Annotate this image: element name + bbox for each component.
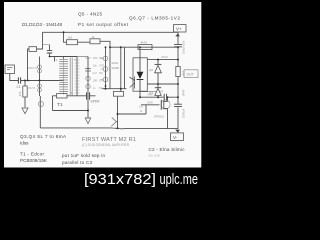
cap on V- vertical [174, 104, 182, 106]
wire P1 chain [78, 41, 111, 47]
svg-text:FIRST WATT M2 R1: FIRST WATT M2 R1 [82, 137, 136, 143]
svg-text:Q5 - 4N25: Q5 - 4N25 [78, 11, 102, 16]
svg-text:parallel to C3: parallel to C3 [62, 160, 92, 165]
svg-text:T1 - Edcor: T1 - Edcor [20, 151, 44, 156]
svg-text:25v 10uF: 25v 10uF [149, 154, 161, 158]
mosfet Q2 circle [161, 100, 170, 109]
wire jfet column [39, 57, 42, 128]
svg-text:0R47: 0R47 [148, 93, 155, 97]
zobel R circles [86, 76, 90, 80]
resistor R feedback bottom [57, 94, 68, 98]
labels near mosfet [139, 93, 165, 119]
zobel cap [85, 69, 91, 71]
junction input/bias [27, 80, 29, 82]
T1 terminal numbers [56, 58, 77, 95]
jfet symbol bottom middle [111, 118, 117, 127]
svg-text:SPKR: SPKR [91, 100, 101, 104]
svg-text:10R: 10R [93, 79, 98, 83]
wire riser x146 [145, 105, 147, 114]
svg-text:50v: 50v [99, 71, 104, 75]
cap on V+ vertical top [174, 44, 182, 46]
resistor mid under opto [114, 91, 124, 96]
junction column A lower [105, 85, 107, 87]
OUT box [184, 70, 198, 78]
junction y88 line / twin vertical [120, 88, 122, 90]
transistor lower left [38, 101, 43, 106]
wire mid column B [109, 47, 111, 88]
svg-text:PCB009/15K: PCB009/15K [20, 158, 48, 163]
transformer T1 primary winding [59, 59, 68, 91]
rotated value labels right [182, 40, 186, 118]
svg-text:Q6,Q7 - LM385-1V2: Q6,Q7 - LM385-1V2 [129, 16, 180, 21]
wire input to gate node [10, 74, 18, 81]
wire twin verticals [121, 47, 125, 92]
wire opto LED bottom lead [139, 91, 141, 97]
svg-text:4u7: 4u7 [93, 71, 98, 75]
wire gate line y104.8 [141, 104, 160, 106]
svg-text:221: 221 [139, 105, 144, 109]
svg-text:D1,D2,D3 - 1N4148: D1,D2,D3 - 1N4148 [22, 22, 62, 27]
node cap C3 column [49, 45, 51, 57]
wire gate line y114 [118, 113, 147, 115]
junction mid rail / V+ vertical [177, 46, 179, 48]
potentiometer P1 box2 [90, 39, 100, 44]
svg-text:C2 - Elna Silmic: C2 - Elna Silmic [149, 147, 186, 152]
wire mid column A [105, 47, 107, 88]
jfet Q4 [38, 84, 42, 88]
svg-text:10u: 10u [93, 64, 98, 68]
mosfet Q2 [160, 100, 162, 110]
ground (input) [22, 108, 28, 114]
opto phototransistor [130, 77, 135, 89]
resistor R1 [23, 86, 27, 97]
svg-text:Q3,Q4 SL 7 to 8mA: Q3,Q4 SL 7 to 8mA [20, 134, 67, 139]
opto LED lead [139, 58, 141, 72]
svg-text:47: 47 [160, 90, 164, 94]
junction y84 / V rail [177, 83, 179, 85]
junction C3/T1 top [49, 56, 51, 58]
wire T1 terminal 1 stub [54, 57, 56, 62]
wire winding top stub [63, 57, 65, 59]
wire bottom ground rail [40, 127, 178, 130]
svg-text:V-: V- [173, 135, 178, 140]
wire q6 top rail y60 [147, 59, 178, 61]
junction y60 / V rail [177, 59, 179, 61]
small box on left drop [29, 47, 37, 52]
junction Q6 top [157, 59, 159, 61]
transformer core [70, 58, 72, 96]
svg-text:V+: V+ [176, 27, 182, 32]
wire output node vertical [87, 57, 89, 119]
svg-text:(C) 2018 GENERAL AMPLIFIER: (C) 2018 GENERAL AMPLIFIER [82, 143, 130, 147]
svg-text:1R0: 1R0 [93, 56, 98, 60]
svg-text:0R47: 0R47 [182, 89, 186, 96]
svg-text:1W: 1W [99, 79, 103, 83]
wire T1 top line [50, 56, 78, 58]
optocoupler U1 box [133, 58, 147, 91]
junction y88 line / column A [105, 88, 107, 90]
junction mid rail / column B [109, 46, 111, 48]
wire down to input node [28, 49, 30, 81]
svg-text:4k75: 4k75 [141, 41, 148, 45]
opto LED cathode bar [137, 79, 144, 81]
svg-text:221k: 221k [112, 61, 119, 65]
wire opto to q7 [140, 91, 157, 93]
transformer secondary ticks [75, 60, 80, 93]
capacitor output [87, 92, 90, 99]
junction P1 tap on rail [63, 31, 65, 33]
wire output cap to SPKR [77, 95, 96, 97]
svg-text:3W: 3W [99, 56, 103, 60]
wire top rail V+ [43, 31, 179, 33]
V+ arrow [175, 33, 180, 36]
svg-text:IRF9610: IRF9610 [154, 115, 165, 119]
junction output/ground leg [87, 110, 89, 112]
svg-text:C1: C1 [17, 85, 21, 89]
wire T1 right vertical [76, 57, 78, 96]
svg-text:47uF: 47uF [161, 55, 168, 59]
wire T1 bottom loop [53, 95, 78, 97]
wire P1 stub [64, 32, 67, 42]
mid transistors column A [103, 56, 108, 61]
input jack J1 [5, 65, 15, 74]
junction gate node [39, 80, 41, 82]
svg-text:1k5: 1k5 [68, 36, 73, 40]
black frame background [0, 0, 204, 189]
junction mosfet source [167, 96, 169, 98]
wire T1 top to output node [77, 56, 88, 58]
junction mid rail / LED lead [139, 46, 141, 48]
wire y97 horizontal [140, 96, 178, 98]
wire q7 leads [157, 84, 159, 97]
svg-text:T1: T1 [57, 102, 63, 108]
resistor on V+ vertical [176, 67, 180, 77]
junction mid rail / column A [105, 46, 107, 48]
svg-text:[931x782]: [931x782] [84, 172, 156, 188]
wire mid horizontal y88 [102, 88, 127, 90]
svg-text:X7R: X7R [99, 64, 104, 68]
resistor R on mid rail [138, 45, 152, 50]
V- arrow [175, 130, 180, 133]
svg-text:2SK170: 2SK170 [28, 66, 38, 70]
wire V+ vertical [177, 32, 179, 128]
V+ terminal box [174, 25, 187, 32]
wire y84 horizontal [147, 83, 178, 85]
svg-text:63v: 63v [99, 86, 104, 90]
svg-text:1000uF: 1000uF [182, 108, 186, 118]
capacitor C1 [18, 77, 20, 83]
svg-text:put 1uF sold sep in: put 1uF sold sep in [62, 153, 105, 158]
white schematic sheet [4, 2, 201, 168]
svg-text:Q6: Q6 [149, 68, 153, 72]
opto LED triangle [137, 72, 144, 79]
svg-text:P1 set output offset: P1 set output offset [78, 22, 129, 27]
svg-text:100R: 100R [147, 101, 153, 105]
junction y97 / V rail [177, 96, 179, 98]
wire left drop from rail [37, 32, 43, 49]
svg-text:Idss: Idss [20, 141, 29, 146]
svg-text:2SJ74: 2SJ74 [28, 86, 36, 90]
wire R1 leads [24, 81, 26, 108]
potentiometer P1 box1 [67, 40, 78, 45]
junction input/R1 [24, 80, 26, 82]
ground (output) [85, 118, 91, 124]
zener Q6 LM385 [155, 63, 162, 65]
V- terminal box [171, 133, 184, 141]
svg-text:220R: 220R [112, 66, 120, 70]
junction Q7 bottom [157, 96, 159, 98]
svg-text:100uF/25v: 100uF/25v [182, 40, 186, 54]
wire opto LED top lead [139, 47, 141, 58]
wire mid rail y47 [110, 46, 178, 48]
zobel tick [86, 57, 91, 59]
wire q6 leads [157, 60, 159, 84]
junction gate line y114 [117, 113, 119, 115]
junction mid rail / twin vertical [120, 46, 122, 48]
svg-text:uplc.me: uplc.me [160, 172, 199, 188]
capacitor C3 [47, 50, 52, 53]
junction Q6/Q7 [157, 83, 159, 85]
jfet Q3 [38, 65, 42, 69]
svg-text:3R3: 3R3 [182, 70, 186, 76]
svg-text:47k: 47k [18, 91, 22, 96]
junction bottom rail [117, 127, 119, 129]
value label grid [93, 56, 105, 90]
junction LED bottom [139, 96, 141, 98]
cap on y97 line [164, 94, 166, 101]
zener Q7 LM385 [155, 87, 161, 89]
svg-text:OUT: OUT [187, 73, 194, 77]
